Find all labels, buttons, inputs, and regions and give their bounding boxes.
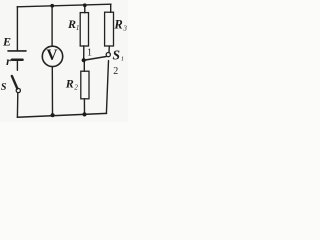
svg-text:r: r bbox=[6, 54, 11, 68]
svg-text:E: E bbox=[2, 35, 11, 49]
svg-text:S: S bbox=[113, 47, 121, 62]
wire R1 top bbox=[84, 5, 86, 13]
svg-text:1: 1 bbox=[121, 56, 124, 63]
wire R3 top bbox=[110, 4, 112, 12]
switch S arm bbox=[12, 76, 17, 89]
wire battery to switch S bbox=[16, 61, 18, 71]
wire R2 bottom bbox=[83, 99, 85, 115]
node dot bottom R2 bbox=[82, 112, 86, 116]
svg-text:1: 1 bbox=[87, 47, 92, 58]
node dot top voltmeter branch bbox=[50, 4, 54, 8]
wire switch to bottom bbox=[16, 93, 18, 118]
battery E long plate bbox=[8, 50, 26, 52]
svg-text:V: V bbox=[46, 47, 58, 64]
wire bottom horizontal bbox=[17, 113, 106, 117]
switch S1 arm to node 1 bbox=[85, 57, 107, 61]
wire left vertical (top to battery) bbox=[16, 7, 18, 51]
wire node 1 to R2 bbox=[83, 60, 85, 71]
wire voltmeter top bbox=[51, 6, 53, 47]
svg-text:1: 1 bbox=[76, 24, 80, 32]
switch S pivot circle bbox=[16, 88, 20, 92]
node dot top R1 branch bbox=[83, 3, 87, 7]
wire top horizontal bbox=[17, 4, 111, 7]
svg-text:3: 3 bbox=[122, 25, 127, 33]
svg-text:2: 2 bbox=[113, 66, 118, 77]
svg-text:S: S bbox=[1, 82, 7, 93]
resistor R1 box bbox=[80, 13, 88, 46]
resistor R2 box bbox=[81, 71, 89, 99]
battery E short plate bbox=[12, 58, 23, 61]
node 1 dot bbox=[82, 58, 86, 62]
wire R3 bottom to S1 pivot bbox=[108, 46, 110, 53]
svg-text:R: R bbox=[113, 17, 122, 31]
wire contact 2 to bottom bbox=[106, 61, 108, 114]
svg-text:R: R bbox=[65, 77, 74, 91]
voltmeter U1 circle bbox=[42, 46, 62, 66]
switch S1 pivot circle bbox=[106, 53, 110, 57]
svg-text:2: 2 bbox=[74, 84, 78, 92]
wire R1 bottom to node 1 bbox=[83, 46, 85, 59]
wire voltmeter bottom bbox=[51, 67, 53, 115]
node dot bottom voltmeter bbox=[51, 113, 55, 117]
resistor R3 box bbox=[105, 12, 114, 46]
svg-text:R: R bbox=[67, 17, 76, 31]
